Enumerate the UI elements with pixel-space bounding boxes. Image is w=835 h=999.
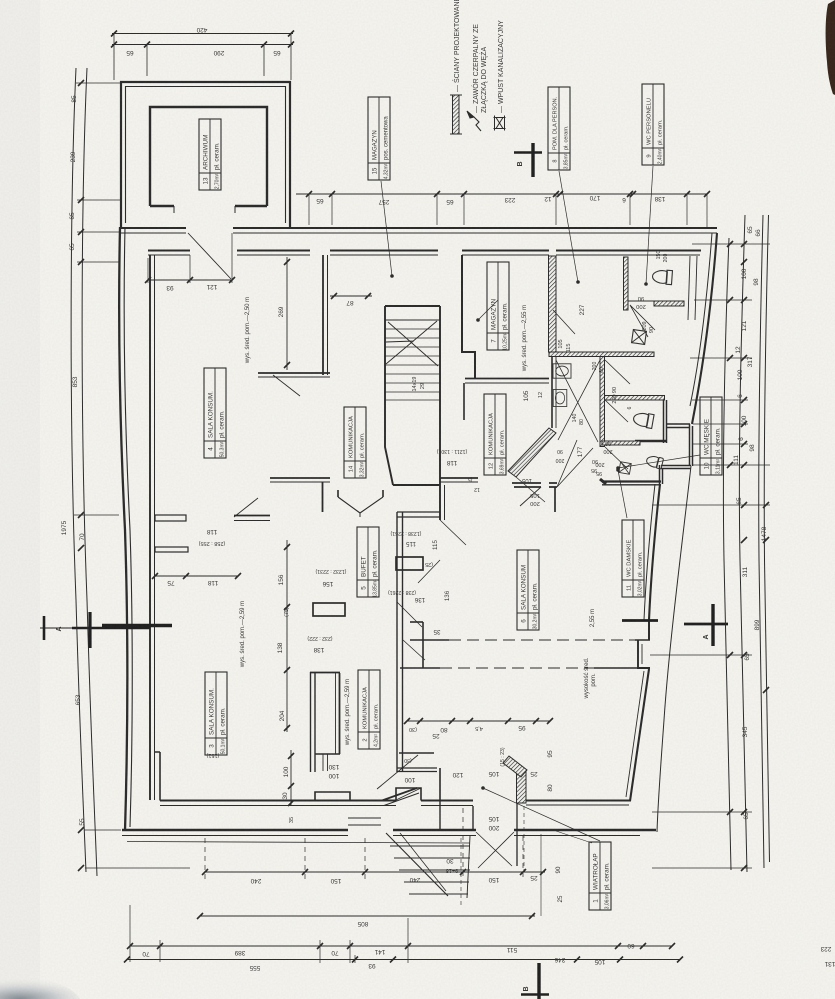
section B bottom (537, 963, 540, 999)
komunikacja12 west wall (551, 356, 553, 428)
door swing diagonals in sanitary block (556, 360, 600, 442)
stair diagonals (386, 321, 438, 366)
scanner shading left edge (0, 0, 40, 999)
washbasin b (553, 390, 567, 407)
dashed ceiling-height lines sala6 (410, 639, 650, 641)
archiwum inner bottom wall right (235, 205, 267, 207)
archiwum inner bottom wall left (150, 205, 174, 207)
section A right (711, 604, 714, 646)
side landing lines (348, 818, 381, 825)
sala4 door diagonal (273, 375, 300, 396)
porch east rail (517, 803, 592, 916)
diagonal hatched wall (komunikacja12) (508, 428, 556, 477)
inner bottom wall (160, 800, 631, 802)
corner jog to sala6 bottom (648, 620, 650, 640)
floor drain wc meskie (619, 462, 632, 475)
top dimension chain 420 (111, 31, 294, 81)
room label 13 ARCHIWUM (199, 119, 221, 190)
room label 1 WIATRO&#321;AP (589, 842, 611, 910)
shaft lines right of wc9 (688, 256, 697, 320)
archiwum inner room wall (150, 107, 267, 206)
washbasin a (553, 364, 571, 378)
hatched wall right of magazyn7 (549, 256, 557, 352)
archiwum outer wall (121, 82, 290, 228)
section A left (88, 612, 91, 648)
bufet right wall (397, 512, 403, 772)
pilaster column (313, 603, 345, 616)
interior dims lower (288, 718, 553, 806)
leader lines with dots (381, 166, 700, 841)
corridor lower wall segments (148, 250, 701, 252)
double door funnel komunikacja14 (338, 490, 383, 517)
bottom-left scanner blob (0, 0, 1, 1)
room label 8 POM. DLA PERSON. (548, 87, 570, 170)
komunikacja2 right wall (339, 673, 341, 754)
inner bottom wall notch 2 (315, 792, 350, 801)
hatched wall between room8 and wc9 (624, 257, 629, 310)
sala4 top-right wall (258, 372, 330, 374)
corridor wall y478 x440-478 (440, 477, 478, 479)
legend drain symbol (494, 116, 506, 131)
legend hatched bar (453, 95, 460, 134)
hatched wall x600 (600, 357, 605, 447)
hatched wall between stalls (602, 441, 640, 445)
entrance porch steps (386, 832, 514, 898)
big hatched wall y352 (549, 352, 654, 357)
hatched wall y395 (605, 396, 665, 401)
right outer wall lower (649, 484, 660, 620)
wiatrolap west wall (440, 801, 473, 830)
legend tap arrow symbol (474, 117, 481, 131)
stairwell walls (385, 306, 393, 485)
svg-text:25: 25 (557, 895, 564, 902)
pilaster column 2 (396, 557, 423, 570)
room label 5 BUFET (357, 527, 379, 597)
room label 10 WC M&#280;SKIE (700, 397, 722, 475)
left outer wall (119, 227, 127, 831)
terrain line below bottom wall (127, 842, 470, 844)
sala6 top walls (440, 440, 593, 512)
right outer wall top (692, 233, 717, 424)
entrance diagonal wall (382, 788, 417, 801)
wall under magazyn7 (465, 378, 549, 380)
toilet stall lower small (645, 455, 663, 470)
room label 4 SALA KONSUM. (204, 368, 226, 458)
stair treads (385, 329, 440, 400)
sink room9 (632, 330, 647, 345)
wiatrolap hatched wall (517, 770, 527, 803)
interior dims top-left (145, 233, 372, 370)
bufet door diagonals (397, 520, 466, 660)
komunikacja2 lower walls (397, 768, 437, 772)
bottom outer wall (122, 829, 656, 832)
wall stub b (155, 547, 188, 552)
right dimension chains (650, 215, 770, 872)
right edge dark strip (826, 0, 835, 95)
komunikacja14 bottom wall (270, 477, 330, 479)
wiatrolap hatched diagonal piece (503, 756, 527, 777)
bottom dimension chains (124, 808, 683, 963)
archiwum door jambs (174, 206, 235, 213)
lower right outer wall (630, 669, 649, 801)
wall stub a (155, 515, 186, 521)
wall sala4/sala3 segment (234, 498, 270, 521)
inner bottom wall notch (396, 788, 421, 801)
room label 7 MAGAZYN (487, 262, 509, 350)
room label 9 WC PERSONELU (642, 84, 664, 165)
left dimension chain (71, 68, 190, 876)
wall between wc stalls (635, 440, 666, 443)
section B top (531, 143, 534, 177)
toilet wc9 (652, 269, 672, 284)
room label 2 KOMUNIKACJA (358, 670, 380, 749)
inner left wall (sala konsum) (149, 255, 151, 800)
wc bay walls (664, 400, 667, 443)
wall between sala4 and corridor14 (322, 255, 324, 375)
komunikacja2 left wall (311, 672, 316, 772)
inner bottom wall corner to inner left wall (155, 752, 161, 801)
room label 3 SALA KONSUM. (205, 672, 227, 755)
komunikacja near wiatrolap walls (422, 622, 424, 668)
svg-text:90: 90 (555, 866, 562, 873)
toilet stall upper (632, 411, 654, 428)
dimension chain 65/257/65 and 223/12/170/6/138 (296, 191, 710, 228)
komunikacja2 bottom wall and passage (315, 753, 340, 755)
archiwum door diagonal (188, 233, 231, 279)
room label 12 KOMUNIKACJA (484, 394, 506, 475)
room label 11 WC DAMSKIE (622, 520, 644, 597)
sala6 bottom dashed line (400, 667, 440, 669)
sidewalk outer line (657, 466, 691, 832)
room label 6 SALA KONSUM (517, 550, 539, 630)
hatched wall below wc9 (654, 301, 684, 306)
right block: magazyn7 left wall (462, 255, 475, 378)
room label 15 MAGAZYN (368, 97, 390, 180)
corridor jamb below magazyn7 (463, 383, 465, 420)
room label 14 KOMUNIKACJA (344, 407, 366, 478)
corridor top wall (121, 227, 717, 229)
interior dims middle band (152, 540, 290, 732)
